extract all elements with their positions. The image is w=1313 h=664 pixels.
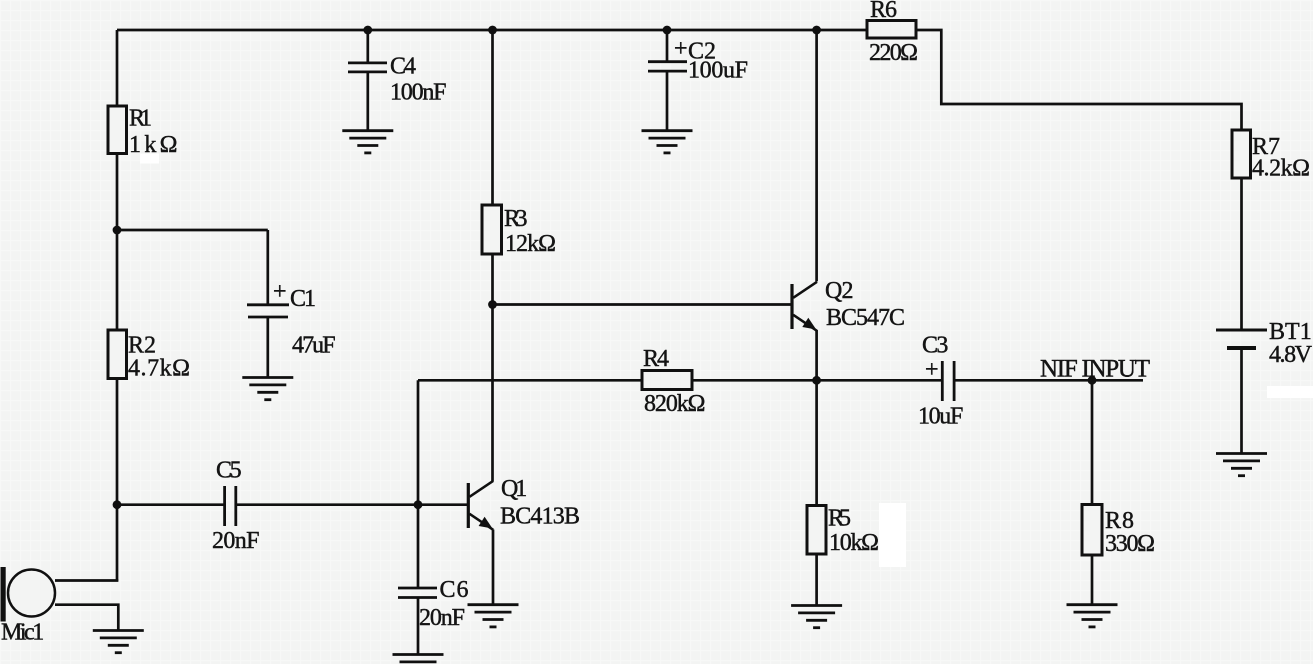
wire C5 right to Q1 base — [237, 503, 468, 506]
svg-text:20nF: 20nF — [419, 605, 465, 631]
junction Q2 collector top — [812, 26, 821, 35]
wire C1 branch horizontal — [117, 229, 268, 232]
svg-text:R5: R5 — [828, 506, 851, 532]
wire mic top terminal — [55, 579, 118, 582]
wire R7 to battery — [1240, 178, 1243, 330]
svg-text:+: + — [674, 36, 688, 62]
capacitor C2 — [648, 36, 748, 84]
svg-text:20nF: 20nF — [212, 528, 260, 554]
ground C6 — [393, 655, 444, 664]
wire R4 node vertical — [417, 380, 420, 504]
junction C4 top — [363, 26, 372, 35]
wire battery to ground — [1240, 348, 1243, 454]
svg-text:R3: R3 — [504, 206, 528, 232]
wire R8 to ground — [1091, 555, 1094, 605]
ground C1 — [242, 378, 293, 400]
svg-text:820kΩ: 820kΩ — [644, 391, 706, 417]
junction C2 top — [663, 26, 672, 35]
svg-text:+: + — [925, 357, 939, 383]
junction NIF INPUT node — [1088, 376, 1097, 385]
ground BT1 — [1216, 454, 1267, 476]
svg-text:4.2kΩ: 4.2kΩ — [1252, 156, 1310, 182]
wire C3 to NIF INPUT — [955, 379, 1143, 382]
svg-text:C1: C1 — [290, 286, 316, 312]
capacitor C1 — [247, 279, 336, 359]
wire C1 to ground — [266, 318, 269, 378]
resistor R3 — [482, 205, 556, 257]
wire R6 output to R7 — [916, 30, 1242, 130]
wire R3 top stub — [491, 30, 494, 205]
ground R8 — [1067, 605, 1118, 627]
wire C6 to ground — [417, 599, 420, 655]
resistor R7 — [1232, 130, 1310, 182]
wire mic bottom terminal — [55, 605, 118, 631]
svg-text:Mic1: Mic1 — [1, 620, 44, 646]
capacitor C4 — [348, 54, 447, 106]
svg-text:+: + — [273, 279, 287, 305]
wire left rail between R2 and C5 node — [116, 378, 119, 582]
svg-text:47uF: 47uF — [292, 333, 336, 359]
ground R5 — [791, 606, 842, 628]
transistor Q1 — [468, 476, 580, 530]
svg-text:C5: C5 — [216, 458, 242, 484]
svg-text:R6: R6 — [870, 0, 897, 23]
svg-text:1kΩ: 1kΩ — [129, 132, 178, 158]
svg-text:R4: R4 — [643, 346, 669, 372]
wire left rail between R1 and R2 — [116, 153, 119, 331]
svg-text:100uF: 100uF — [688, 58, 748, 84]
wire Q2 collector vertical — [815, 30, 818, 281]
wire C4 to ground — [366, 73, 369, 131]
node NIF INPUT — [1040, 356, 1150, 383]
junction R3 top — [488, 26, 497, 35]
svg-text:10uF: 10uF — [918, 404, 963, 430]
wire left rail upper segment — [116, 30, 119, 107]
svg-text:Q1: Q1 — [501, 476, 527, 502]
wire Q2 base horizontal — [493, 303, 793, 306]
svg-text:C4: C4 — [390, 54, 416, 80]
resistor R6 — [867, 0, 918, 66]
capacitor C5 — [212, 458, 260, 555]
wire top power rail — [117, 29, 867, 32]
resistor R8 — [1082, 505, 1155, 558]
wire R4 left segment — [418, 379, 642, 382]
svg-text:330Ω: 330Ω — [1105, 531, 1155, 557]
ground C4 — [342, 131, 393, 153]
resistor R5 — [807, 506, 879, 557]
svg-text:220Ω: 220Ω — [869, 40, 918, 66]
svg-text:C6: C6 — [440, 577, 469, 603]
wire C4 top stub — [366, 30, 369, 62]
wire C5 left segment — [117, 503, 224, 506]
svg-text:4.7kΩ: 4.7kΩ — [128, 356, 190, 382]
junction R1-R2 node — [113, 226, 122, 235]
wire R3 bottom to Q1 collector — [491, 254, 494, 481]
ground Q1 emitter — [468, 605, 519, 627]
microphone Mic1 — [1, 567, 56, 646]
wire R4 right segment to C3 — [692, 379, 941, 382]
resistor R1 — [108, 106, 178, 159]
wire Q2 emitter vertical to R5 — [815, 330, 818, 506]
svg-text:C3: C3 — [922, 333, 948, 359]
svg-text:100nF: 100nF — [390, 80, 447, 106]
svg-text:12kΩ: 12kΩ — [505, 231, 556, 257]
svg-text:R1: R1 — [129, 106, 152, 132]
wire C2 to ground — [666, 72, 669, 131]
wire Q1 emitter vertical — [492, 530, 495, 605]
ground mic — [93, 631, 144, 653]
transistor Q2 — [792, 278, 905, 331]
resistor R2 — [108, 330, 190, 382]
junction C5 left node — [113, 500, 122, 509]
svg-text:10kΩ: 10kΩ — [829, 530, 879, 556]
wire R5 to ground — [815, 554, 818, 606]
wire R8 top vertical — [1091, 380, 1094, 505]
wire C1 branch vertical — [266, 230, 269, 304]
resistor R4 — [642, 346, 706, 417]
svg-text:BC413B: BC413B — [500, 504, 580, 530]
junction Q2 emitter node — [812, 376, 821, 385]
svg-text:4.8V: 4.8V — [1269, 342, 1313, 368]
svg-text:Q2: Q2 — [825, 278, 854, 304]
wire C6 top vertical — [417, 505, 420, 588]
svg-text:BC547C: BC547C — [826, 305, 905, 331]
battery BT1 — [1216, 319, 1313, 368]
ground C2 — [642, 131, 693, 153]
capacitor C3 — [918, 333, 963, 430]
junction Q1 base node — [414, 500, 423, 509]
wire C2 top stub — [666, 30, 669, 61]
junction R3 bottom node — [488, 300, 497, 309]
capacitor C6 — [398, 577, 469, 631]
